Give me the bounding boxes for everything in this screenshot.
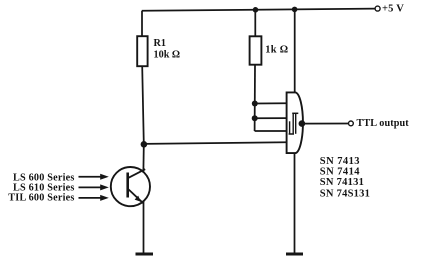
svg-text:TIL 600 Series: TIL 600 Series bbox=[8, 193, 74, 204]
hysteresis left short vertical bbox=[289, 121, 291, 134]
light arrow 1 bbox=[79, 174, 109, 180]
wire gate input 3 bbox=[255, 130, 287, 132]
svg-text:SN 74131: SN 74131 bbox=[320, 177, 364, 188]
wire from rail down to R1 top bbox=[141, 11, 143, 36]
node junction dot input 1 bbox=[252, 101, 258, 107]
node junction dot at collector bbox=[141, 141, 148, 148]
ground (left) bbox=[136, 253, 154, 256]
wire gate input 2 bbox=[255, 117, 287, 119]
transistor base bar bbox=[126, 173, 129, 198]
svg-text:+5 V: +5 V bbox=[382, 3, 404, 14]
terminal TTL output (open circle) bbox=[349, 121, 354, 126]
node junction on rail above 1k resistor bbox=[253, 7, 259, 13]
svg-text:1k Ω: 1k Ω bbox=[265, 45, 288, 56]
wire from rail down to 1k resistor top bbox=[254, 10, 256, 37]
hysteresis vertical left pair bbox=[292, 113, 294, 134]
wire emitter down to ground bbox=[143, 201, 145, 253]
transistor collector diagonal bbox=[128, 169, 145, 178]
wire +5V top rail bbox=[142, 9, 375, 11]
hysteresis symbol top horizontal bbox=[292, 112, 298, 114]
node output junction dot bbox=[299, 120, 306, 127]
svg-text:R1: R1 bbox=[154, 38, 166, 49]
wire gate bottom to ground bbox=[294, 153, 296, 253]
svg-text:SN 74S131: SN 74S131 bbox=[320, 189, 370, 200]
wire long horizontal from collector node to gate input 4 bbox=[144, 142, 287, 144]
transistor emitter arrowhead bbox=[135, 196, 141, 202]
resistor R1 body bbox=[137, 36, 147, 66]
light arrow 2 bbox=[79, 184, 109, 190]
terminal +5 V (open circle) bbox=[375, 6, 380, 11]
wire rail down to gate top (Vcc) bbox=[294, 9, 296, 92]
wire gate input 1 bbox=[255, 102, 287, 104]
op-amp U1 Schmitt NAND gate body bbox=[287, 92, 303, 153]
svg-text:SN 7414: SN 7414 bbox=[320, 166, 360, 177]
light arrow 3 bbox=[79, 195, 109, 201]
hysteresis vertical right pair bbox=[295, 113, 297, 134]
resistor 1k body bbox=[250, 36, 262, 64]
ground (right) bbox=[286, 253, 303, 256]
node junction on rail above gate bbox=[292, 7, 298, 13]
transistor emitter diagonal bbox=[129, 189, 144, 203]
wire 1k bottom down to input elbow bbox=[254, 65, 256, 131]
wire gate output to TTL terminal bbox=[302, 123, 349, 125]
transistor Q1 phototransistor circle bbox=[111, 167, 150, 206]
wire junction to transistor collector bbox=[142, 144, 144, 171]
node junction dot input 2 bbox=[252, 115, 258, 121]
hysteresis bottom horizontal bbox=[289, 133, 294, 135]
wire R1 bottom to collector junction node bbox=[142, 66, 144, 144]
svg-text:TTL output: TTL output bbox=[357, 118, 410, 129]
svg-text:10k Ω: 10k Ω bbox=[154, 50, 181, 61]
